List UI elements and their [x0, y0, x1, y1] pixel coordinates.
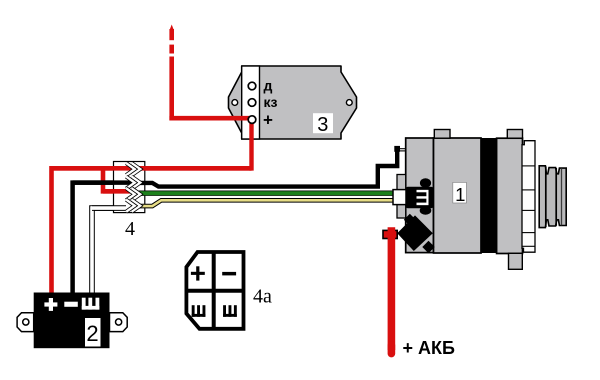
regulator 2 : terminal − marking [64, 302, 78, 307]
wire : red bus to battery + [52, 168, 252, 295]
connector 4a : label 4а [253, 286, 272, 308]
wire : black D terminal plug [394, 146, 405, 152]
wire : red branch redraw [103, 189, 134, 194]
alternator 1 : stator band (black) [481, 138, 497, 253]
alternator 1 : front housing [497, 138, 523, 253]
relay 3 : terminal strip [242, 66, 260, 139]
relay 3 : mounting hole right [346, 100, 352, 106]
connector 4 : chevron row 1 [126, 163, 140, 175]
regulator 2 : label 2 plate [85, 318, 101, 347]
regulator 2 : terminal + marking [44, 298, 57, 311]
connector 4a : pinout outline [186, 252, 243, 329]
relay 3 : terminal label + [263, 111, 273, 130]
connector 4 : chevron row 3 [126, 188, 140, 200]
svg-text:1: 1 [455, 184, 465, 205]
alternator 1 : B+ bolt (diamond) [397, 214, 435, 253]
connector 4a : pin − [222, 272, 236, 276]
relay 3 : terminal label Д [264, 78, 273, 94]
wire : red thick to battery [388, 227, 396, 353]
wire : red battery lug [383, 230, 397, 238]
wire : red branch to connector row 3 [103, 169, 134, 192]
svg-text:кз: кз [264, 94, 278, 110]
wire : black regulator minus to connector row 2 [73, 183, 130, 295]
svg-text:+ АКБ: + АКБ [403, 338, 455, 358]
connector 4 : chevron row 2 [126, 177, 140, 189]
wire : red dashed to ignition switch [169, 25, 174, 121]
connector 4a : pin Ш left [192, 305, 206, 317]
alternator 1 : top mounting lug right [507, 130, 522, 139]
alternator 1 : fan / spacer stack [522, 141, 535, 253]
relay 3 : mounting hole left [232, 100, 238, 106]
alternator 1 : bottom mounting lug [509, 253, 523, 269]
svg-text:4: 4 [125, 218, 135, 240]
connector 4 : label 4 [125, 218, 135, 240]
wire : red ignition line to relay + terminal [169, 116, 252, 121]
alternator 1 : main frame [434, 138, 482, 253]
alternator 1 : brush connector Ш (black) [406, 178, 433, 215]
connector 4a : pin + [191, 266, 205, 280]
alternator 1 : rear housing [406, 138, 434, 253]
svg-text:4а: 4а [253, 286, 272, 308]
connector 4 : housing [114, 162, 145, 213]
wire : red relay + down to bus [249, 120, 253, 171]
relay 3 : terminal label КЗ [264, 94, 278, 110]
connector 4 : chevron row 4 [126, 200, 140, 212]
label + АКБ [403, 338, 455, 358]
relay 3 : terminal КЗ [248, 99, 256, 107]
wire : white redraw [91, 205, 126, 211]
connector 4a : pin Ш right [223, 305, 237, 317]
alternator 1 : label 1 plate [453, 182, 467, 205]
wire : black through connector row 2 redraw [73, 180, 130, 185]
regulator 2 : body [34, 293, 110, 349]
wire : green connector to alternator Ш socket [133, 190, 395, 195]
wire : white regulator Ш to connector row 4 (outline) [92, 208, 126, 294]
wire : black connector to alternator D terminal [130, 149, 397, 187]
svg-text:д: д [264, 78, 273, 94]
svg-text:Ш: Ш [413, 189, 433, 207]
svg-text:3: 3 [317, 114, 328, 136]
alternator 1 : Ш socket [393, 190, 406, 205]
wire : red bus through connector row 1 (redraw over box) [52, 166, 252, 171]
alternator 1 : pulley [539, 166, 566, 228]
relay 3 : terminal Д [248, 82, 256, 90]
wire : yellow connector to alternator Ш socket [133, 200, 395, 206]
regulator 2 : mounting ear right [110, 313, 128, 332]
regulator 2 : mounting ear left [17, 313, 34, 332]
regulator 2 : terminal Ш marking [82, 298, 100, 310]
svg-text:2: 2 [86, 321, 98, 346]
svg-text:+: + [263, 111, 273, 130]
alternator 1 : top mounting lug left [434, 130, 450, 139]
alternator 1 : housing boss [397, 175, 406, 219]
relay 3 : terminal + [248, 116, 256, 124]
relay 3 : body [229, 66, 357, 139]
relay 3 : label 3 plate [313, 113, 333, 136]
